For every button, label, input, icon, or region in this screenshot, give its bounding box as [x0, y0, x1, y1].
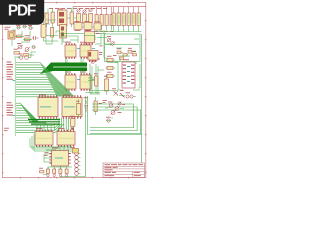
diode D10 — [65, 167, 68, 177]
wire resistor bottoms — [95, 30, 142, 32]
resistor R14 — [23, 35, 32, 40]
wire nested corner 3 — [90, 110, 141, 134]
wire nested corner 2 — [90, 107, 137, 131]
wire VCC top rail — [73, 6, 146, 8]
resistor R3 — [105, 7, 109, 32]
resistor R29 — [76, 99, 81, 118]
transistor Q3 — [89, 8, 93, 12]
bus DB lower — [28, 120, 60, 125]
LED D6 — [25, 52, 36, 59]
resistor R1 — [95, 7, 99, 32]
diode D8 — [53, 167, 56, 177]
diode D1 — [16, 25, 21, 29]
resistor R2 — [100, 7, 104, 32]
net label above J1 — [71, 146, 76, 149]
resistor R21 — [106, 67, 116, 70]
wire mid row — [44, 24, 71, 44]
resistor R20 — [106, 56, 116, 62]
wire U13 hookup — [107, 58, 140, 90]
diode D14 — [112, 88, 118, 95]
resistor R28 — [104, 74, 109, 95]
resistor R26 — [89, 14, 93, 28]
wire lower right hookup — [105, 96, 125, 120]
group box right — [105, 34, 141, 62]
resistor R10 — [137, 7, 140, 32]
net label right of U8 — [103, 100, 108, 103]
transistor Q12 — [91, 59, 100, 64]
transistor Q6 — [107, 36, 111, 42]
capacitor C1 — [32, 36, 39, 40]
resistor R18 — [94, 97, 102, 115]
svg-text:PDF: PDF — [8, 3, 36, 20]
diode D3 — [28, 25, 34, 30]
schematic frame border — [2, 2, 145, 177]
top designators row — [49, 7, 107, 10]
resistor R11 — [51, 8, 54, 27]
IC U5 — [65, 72, 80, 91]
diode D7 — [47, 167, 50, 177]
resistor R17 — [51, 28, 54, 42]
transistor Q11 — [118, 102, 125, 106]
net label teal 2 — [13, 114, 16, 117]
title block — [103, 163, 145, 177]
net labels bundle 2 — [7, 102, 14, 115]
diode D4 — [32, 46, 37, 49]
net label row 128 — [4, 128, 9, 131]
wire net bus top — [46, 28, 107, 45]
net label under badge — [5, 27, 11, 30]
resistor R24 — [77, 14, 81, 28]
net labels bundle 1 — [7, 62, 14, 80]
transistor Q9 — [115, 107, 120, 111]
title block text — [105, 164, 144, 176]
wire mid column — [95, 30, 107, 58]
wire bundle lower — [30, 134, 72, 162]
resistor R19 — [39, 168, 44, 173]
LED D5 — [18, 54, 23, 60]
diode D17 — [120, 57, 124, 59]
IC U11 — [49, 148, 70, 166]
connector J1 — [75, 152, 81, 176]
resistor R25 — [83, 14, 87, 27]
resistor R12 — [70, 8, 73, 27]
wire left cluster — [12, 30, 34, 57]
transistor Q2 — [83, 10, 87, 14]
diode D13 — [128, 48, 132, 53]
net label left of U11 — [45, 152, 49, 156]
IC U9 — [35, 128, 53, 147]
wire nested corner 1 — [90, 104, 134, 128]
PDF badge overlay — [0, 0, 44, 25]
transistor Q5 — [25, 47, 31, 52]
resistor R8 — [127, 7, 130, 32]
diode D15 — [120, 90, 125, 98]
crystal Y1 — [8, 31, 15, 39]
IC U6 — [80, 72, 95, 91]
IC U12 — [88, 51, 103, 63]
resistor R6 — [117, 7, 120, 32]
transistor Q1 — [77, 9, 81, 13]
capacitor C3 — [84, 97, 89, 111]
IC U10 — [57, 128, 75, 147]
IC U4 — [80, 42, 95, 59]
resistor R9 — [132, 7, 135, 32]
transistor Q7 — [110, 42, 114, 46]
bus wires bundle 2 — [16, 103, 64, 132]
wire bottom section — [43, 166, 86, 177]
IC U8 — [62, 95, 82, 119]
IC U2b — [94, 21, 101, 30]
resistor R5 — [112, 7, 115, 32]
IC U13 — [122, 59, 135, 88]
wire U3 U5 links — [66, 57, 84, 75]
transistor Q4 — [17, 43, 23, 49]
IC U2 — [85, 30, 95, 45]
resistor R16 — [23, 54, 29, 57]
resistor R23 — [45, 13, 48, 27]
diode D12 — [123, 54, 127, 57]
bus DB main — [40, 63, 87, 75]
resistor R22 — [106, 72, 116, 78]
capacitor C2 — [41, 22, 46, 42]
resistor R15 — [14, 49, 20, 54]
wire IC column risers — [37, 118, 73, 132]
wire right drop — [141, 34, 143, 163]
bus wires bundle 1 — [16, 63, 74, 97]
resistor R27 — [94, 73, 98, 86]
capacitor C6 — [126, 92, 137, 98]
transistor Q10 — [111, 111, 122, 115]
net label mid — [96, 33, 117, 56]
resistor R13 — [15, 35, 24, 38]
relay K2 — [60, 25, 67, 39]
diode D18 — [133, 51, 137, 56]
IC U2a — [84, 21, 92, 31]
net label teal 1 — [13, 79, 16, 82]
capacitor C5 — [73, 149, 79, 154]
IC U3 — [65, 42, 80, 59]
relay K1 — [58, 9, 68, 26]
wire bus riser left — [14, 58, 16, 136]
diode D9 — [59, 167, 62, 177]
resistor R7 — [122, 7, 125, 32]
frame ruler tick marks — [2, 2, 146, 178]
IC U1 — [74, 21, 82, 31]
diode D2 — [23, 25, 28, 28]
diode D16 — [106, 117, 111, 122]
transistor Q8 — [108, 102, 114, 108]
wire top mid — [46, 7, 94, 27]
IC U7 — [38, 95, 58, 119]
diode D11 — [117, 48, 121, 53]
wire mid verticals — [88, 64, 104, 94]
resistor R4 — [110, 7, 114, 32]
wire mid drop pair — [86, 91, 142, 177]
capacitor C4 — [70, 116, 75, 130]
wire group box — [106, 39, 140, 56]
